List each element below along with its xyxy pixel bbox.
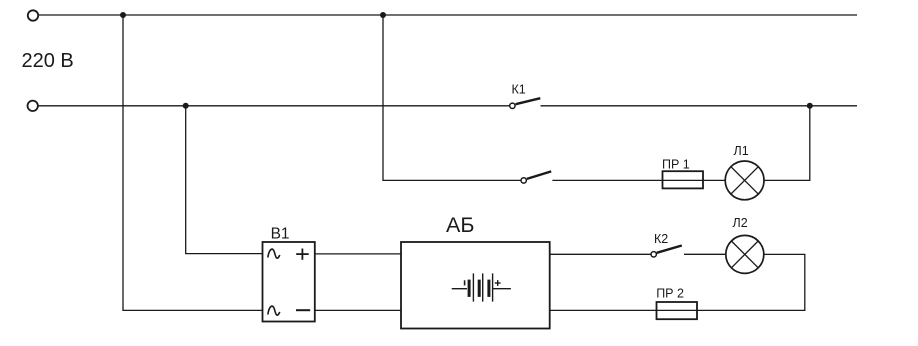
fuse ПР2 [657,302,698,319]
svg-text:Л1: Л1 [734,144,749,158]
wire АБ output to K2 [550,253,651,255]
wire lamp branch, left of switch [382,179,520,181]
wire K2 to lamp Л2 [684,253,726,255]
node junction on top wire at x=123 [120,12,126,18]
svg-text:ПР 1: ПР 1 [662,157,690,171]
node junction on top wire at x=383 [380,12,386,18]
lamp Л2 [726,235,764,273]
svg-text:Л2: Л2 [733,216,748,230]
wire into B1 top input [185,253,262,255]
wire vertical from top line down to lamp branch [382,15,384,180]
wire lamp branch, switch to lamp Л1 [552,179,725,181]
wire second line N, left of K1 [38,105,509,107]
svg-text:К2: К2 [654,232,668,246]
node junction on second wire at x=186 [183,103,189,109]
switch S1 (unnamed, lamp branch) [521,171,551,183]
wire vertical from second line down to B1 top input [185,106,187,254]
wire vertical from top line down to bottom dc rail [122,15,124,310]
battery cells symbol inside АБ [452,273,511,301]
lamp Л1 [725,161,764,200]
svg-text:К1: К1 [512,82,526,96]
svg-text:В1: В1 [271,225,290,242]
wire lamp Л1 to vertical riser [764,179,810,181]
wire B1 minus output to АБ [315,309,401,311]
svg-text:АБ: АБ [446,213,474,237]
fuse ПР1 [663,171,704,188]
wire АБ bottom return through ПР2 [550,309,806,311]
B1 ac symbol top [268,249,280,258]
node junction on second wire at x=810 [807,103,813,109]
B1 minus sign [296,309,310,311]
wire second line N, right of K1 [541,105,858,107]
switch K2 [651,246,682,258]
rectifier B1 box [263,242,315,322]
wire top line L [39,14,857,16]
svg-text:220 В: 220 В [22,50,74,72]
wire right riser down [804,254,806,310]
terminal X1 (top input) [28,10,38,20]
wire vertical riser lamp branch to second line [809,106,811,181]
switch K1 [510,98,541,108]
wire B1 plus output to АБ [315,253,401,255]
B1 ac symbol bottom [268,306,280,315]
wire bottom dc rail into B1 [122,309,262,311]
wire lamp Л2 to right riser [764,253,806,255]
battery АБ box [401,242,550,329]
B1 plus sign [296,249,309,260]
svg-text:ПР 2: ПР 2 [656,286,684,300]
terminal X2 (bottom input) [28,101,38,111]
